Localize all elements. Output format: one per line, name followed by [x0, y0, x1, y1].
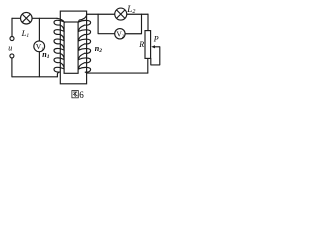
- terminal bottom: [10, 54, 14, 58]
- wire primary bottom: [12, 76, 57, 78]
- svg-text:R: R: [138, 40, 144, 49]
- voltmeter V1: [34, 41, 45, 52]
- wire V1 branch bottom: [38, 52, 40, 77]
- wire wiper path: [151, 47, 160, 65]
- label figure 6 (hand-drawn CJK tu): [72, 91, 78, 98]
- wire R bottom stub: [147, 58, 149, 73]
- coil n1 (primary winding): [54, 18, 64, 77]
- wire V1 branch top: [38, 18, 40, 41]
- wiper arrow: [151, 45, 160, 48]
- wire left vertical top: [11, 18, 13, 36]
- lamp L1: [21, 12, 33, 24]
- svg-text:6: 6: [79, 90, 84, 100]
- core inner rectangle: [64, 22, 78, 73]
- wire V2 drop at junction: [98, 14, 115, 33]
- wire primary top: [12, 17, 57, 19]
- wire secondary top: [87, 13, 148, 15]
- svg-text:P: P: [153, 34, 159, 43]
- core outer rectangle: [60, 11, 86, 84]
- voltmeter V2: [115, 29, 125, 39]
- background: [0, 0, 168, 103]
- coil n2 (secondary winding): [79, 14, 91, 73]
- terminal top: [10, 37, 14, 41]
- resistor R: [145, 31, 151, 59]
- svg-text:u: u: [8, 43, 12, 52]
- wire left vertical bottom: [11, 58, 13, 77]
- wire R top drop: [147, 14, 149, 30]
- wire secondary bottom: [87, 72, 148, 74]
- wire V2 right riser: [125, 14, 141, 34]
- lamp L2: [115, 8, 127, 20]
